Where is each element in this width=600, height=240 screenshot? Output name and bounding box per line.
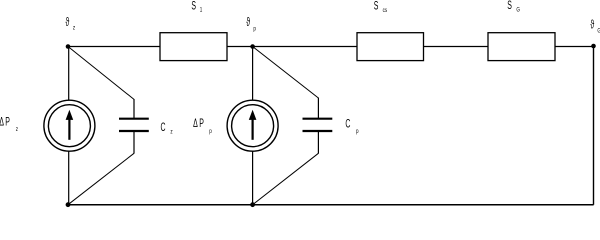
- wire: right vertical (theta_G down): [593, 47, 595, 205]
- resistor S1 (box): [160, 33, 227, 61]
- wire: diagonal bottom-middle node to Cp bottom lead: [253, 153, 319, 204]
- svg-text:p: p: [356, 128, 359, 135]
- current source dPp (double circle with up arrow): [227, 100, 278, 151]
- label Cz: [161, 121, 173, 136]
- wire: Cp bottom lead: [317, 131, 319, 154]
- wire: top bus (theta_z to theta_G): [68, 46, 594, 48]
- svg-text:S: S: [191, 0, 196, 13]
- label theta_p: [246, 16, 256, 33]
- svg-text:G: G: [516, 7, 520, 14]
- svg-text:ϑ: ϑ: [246, 16, 250, 29]
- current source dPz (double circle with up arrow): [44, 100, 95, 151]
- label Cp: [345, 118, 358, 135]
- wire: diagonal theta_p to Cp top lead: [253, 47, 319, 99]
- svg-text:S: S: [374, 0, 379, 13]
- svg-text:p: p: [209, 128, 212, 135]
- svg-text:C: C: [161, 121, 166, 134]
- node bottom-middle (junction dot): [250, 202, 255, 207]
- wire: left branch vertical through source dPz: [68, 47, 70, 205]
- capacitor Cz (plates): [119, 119, 149, 131]
- label Scs: [374, 0, 388, 14]
- svg-text:cs: cs: [383, 7, 388, 14]
- wire: Cz top lead: [133, 99, 135, 119]
- label theta_z: [66, 16, 76, 31]
- label dPp: [193, 117, 212, 135]
- node bottom-left (junction dot): [66, 202, 71, 207]
- label SG: [507, 0, 520, 14]
- svg-text:C: C: [345, 118, 350, 131]
- svg-text:ϑ: ϑ: [590, 19, 594, 32]
- label theta_G: [590, 19, 600, 35]
- label S1: [191, 0, 202, 14]
- wire: diagonal theta_z to Cz top lead: [68, 47, 134, 100]
- wire: Cz bottom lead: [133, 131, 135, 154]
- svg-text:ΔP: ΔP: [193, 117, 205, 130]
- svg-text:1: 1: [200, 7, 203, 14]
- svg-text:S: S: [507, 0, 512, 13]
- label dPz: [0, 116, 18, 134]
- resistor SG (box): [488, 33, 555, 61]
- wire: diagonal bottom-left node to Cz bottom lead: [68, 153, 134, 204]
- svg-text:z: z: [73, 25, 75, 32]
- svg-text:p: p: [253, 26, 256, 33]
- node theta_z (junction dot): [66, 44, 71, 49]
- svg-text:z: z: [170, 129, 172, 136]
- wire: Cp top lead: [317, 98, 319, 119]
- node theta_p (junction dot): [250, 44, 255, 49]
- wire: bottom bus: [68, 204, 594, 206]
- resistor Scs (box): [357, 33, 424, 61]
- node theta_G (junction dot): [591, 44, 596, 49]
- svg-text:z: z: [16, 126, 18, 133]
- svg-text:ΔP: ΔP: [0, 116, 11, 129]
- svg-text:ϑ: ϑ: [66, 16, 70, 29]
- capacitor Cp (plates): [303, 119, 333, 131]
- wire: middle branch vertical through source dPp: [252, 47, 254, 205]
